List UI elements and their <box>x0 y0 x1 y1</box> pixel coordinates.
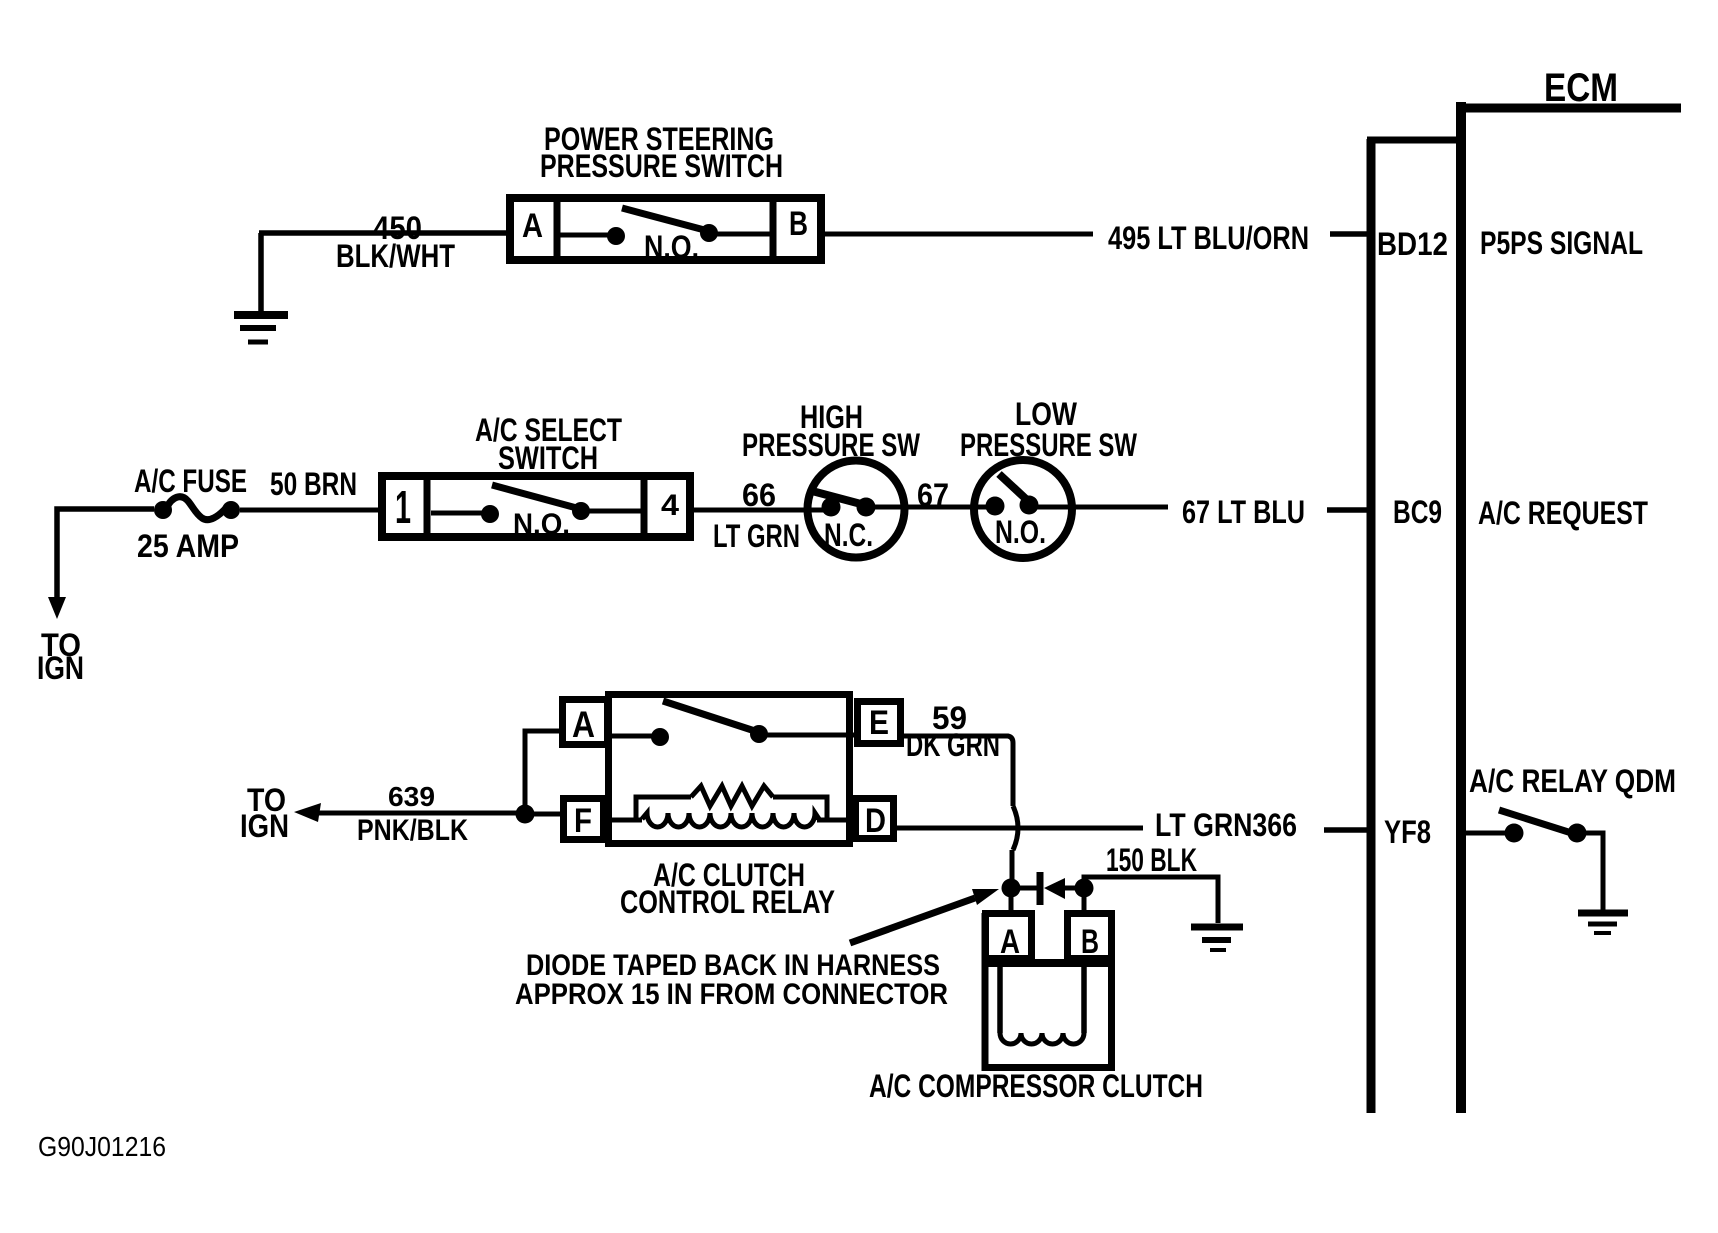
relay terminal F box <box>564 799 604 841</box>
arrow TO IGN (relay feed) <box>294 803 321 822</box>
high pressure switch S3 <box>808 461 905 558</box>
svg-text:67 LT BLU: 67 LT BLU <box>1182 494 1305 530</box>
relay terminal D box <box>856 799 894 841</box>
diode D1 (taped back in harness) <box>1002 872 1094 905</box>
wire to A/C fuse from IGN <box>57 509 154 603</box>
svg-text:N.O.: N.O. <box>644 229 699 265</box>
svg-text:BD12: BD12 <box>1377 226 1448 262</box>
ECM connector left vertical line <box>1367 139 1376 1113</box>
svg-text:B: B <box>1081 923 1099 961</box>
svg-text:D: D <box>865 802 886 840</box>
svg-text:4: 4 <box>661 489 679 522</box>
ground G2 (150 BLK) <box>1191 927 1243 950</box>
relay coil (scalloped) F to D <box>603 813 855 827</box>
svg-text:N.O.: N.O. <box>995 514 1046 550</box>
svg-text:F: F <box>574 802 592 840</box>
ground G3 (QDM) <box>1578 913 1628 933</box>
fuse F1 A/C FUSE 25 AMP <box>154 497 240 520</box>
svg-text:639: 639 <box>388 781 435 812</box>
svg-text:A: A <box>572 704 595 745</box>
svg-text:150 BLK: 150 BLK <box>1106 842 1197 878</box>
relay terminal A box <box>563 700 608 746</box>
svg-text:CONTROL RELAY: CONTROL RELAY <box>620 884 835 920</box>
power steering pressure switch S1 <box>510 198 821 265</box>
wire 639 PNK/BLK <box>310 811 525 816</box>
A/C compressor clutch M1 <box>982 913 1115 1068</box>
ECM right vertical line <box>1456 102 1466 1113</box>
svg-text:PRESSURE SW: PRESSURE SW <box>960 427 1138 463</box>
svg-text:LT GRN: LT GRN <box>713 518 800 554</box>
wire junction to F <box>525 812 560 817</box>
wire 495 LT BLU/ORN <box>825 232 1093 237</box>
svg-text:N.C.: N.C. <box>824 517 873 553</box>
svg-text:SWITCH: SWITCH <box>498 440 598 476</box>
svg-text:DK GRN: DK GRN <box>906 727 1000 763</box>
arrow to IGN down <box>48 597 66 619</box>
svg-text:66: 66 <box>742 477 776 513</box>
svg-text:PNK/BLK: PNK/BLK <box>357 814 468 847</box>
annotation arrow to diode <box>850 889 999 943</box>
wire diode to clutch B <box>1082 888 1087 913</box>
wire 150 BLK to ground <box>1084 877 1218 923</box>
svg-text:P5PS SIGNAL: P5PS SIGNAL <box>1480 225 1643 261</box>
wire 50 BRN <box>240 508 380 513</box>
wire 67 LT BLU <box>1028 505 1168 510</box>
wire hop over LT GRN366 <box>1013 806 1018 850</box>
relay K1 A/C clutch control relay box <box>609 695 850 844</box>
svg-text:50 BRN: 50 BRN <box>270 466 357 502</box>
svg-text:A/C COMPRESSOR CLUTCH: A/C COMPRESSOR CLUTCH <box>869 1068 1203 1104</box>
ECM connector top joiner wire <box>1367 137 1461 144</box>
relay resistor (parallel) <box>636 786 827 822</box>
svg-text:N.O.: N.O. <box>513 508 570 541</box>
svg-text:1: 1 <box>395 481 411 533</box>
svg-text:25 AMP: 25 AMP <box>137 528 239 564</box>
A/C select switch S2 <box>382 476 690 541</box>
wire down to diode <box>1010 850 1015 882</box>
svg-text:495 LT BLU/ORN: 495 LT BLU/ORN <box>1108 220 1309 256</box>
svg-text:67: 67 <box>917 477 949 513</box>
wire LT GRN366 from D <box>894 826 1143 831</box>
wire stub to BD12 <box>1330 231 1369 237</box>
A/C relay QDM driver switch inside ECM <box>1466 810 1603 910</box>
wire 450 BLK/WHT <box>259 230 508 236</box>
svg-text:ECM: ECM <box>1544 66 1618 110</box>
wire junction up to A <box>525 731 559 814</box>
svg-text:A: A <box>1000 923 1020 961</box>
svg-text:A/C FUSE: A/C FUSE <box>134 463 247 499</box>
svg-text:APPROX 15 IN FROM CONNECTOR: APPROX 15 IN FROM CONNECTOR <box>515 978 948 1011</box>
wire 59 DK GRN from E <box>901 736 1013 806</box>
svg-text:IGN: IGN <box>240 808 289 844</box>
relay switch contacts <box>607 701 857 746</box>
svg-text:IGN: IGN <box>37 650 84 686</box>
svg-text:PRESSURE SWITCH: PRESSURE SWITCH <box>540 148 783 184</box>
ground G1 (power steering) <box>234 233 288 342</box>
svg-text:BLK/WHT: BLK/WHT <box>336 238 455 274</box>
junction node at relay feed <box>516 805 535 824</box>
svg-text:A: A <box>522 207 543 245</box>
wire stub to YF8 <box>1324 827 1369 833</box>
svg-text:YF8: YF8 <box>1384 814 1431 850</box>
wire stub to BC9 <box>1327 507 1369 513</box>
svg-text:A/C REQUEST: A/C REQUEST <box>1478 495 1648 531</box>
wire diode to clutch A <box>1009 888 1014 913</box>
relay terminal E box <box>858 702 901 744</box>
low pressure switch S4 <box>974 460 1072 558</box>
svg-text:PRESSURE SW: PRESSURE SW <box>742 427 921 463</box>
svg-text:G90J01216: G90J01216 <box>38 1131 166 1162</box>
svg-text:E: E <box>869 704 889 742</box>
svg-text:LT GRN366: LT GRN366 <box>1155 807 1297 843</box>
ECM top horizontal line <box>1457 104 1681 113</box>
svg-text:A/C RELAY QDM: A/C RELAY QDM <box>1469 763 1676 799</box>
svg-text:BC9: BC9 <box>1393 494 1442 530</box>
wire 67 <box>864 505 996 510</box>
wire 66 LT GRN <box>694 508 833 513</box>
svg-text:B: B <box>789 205 808 243</box>
